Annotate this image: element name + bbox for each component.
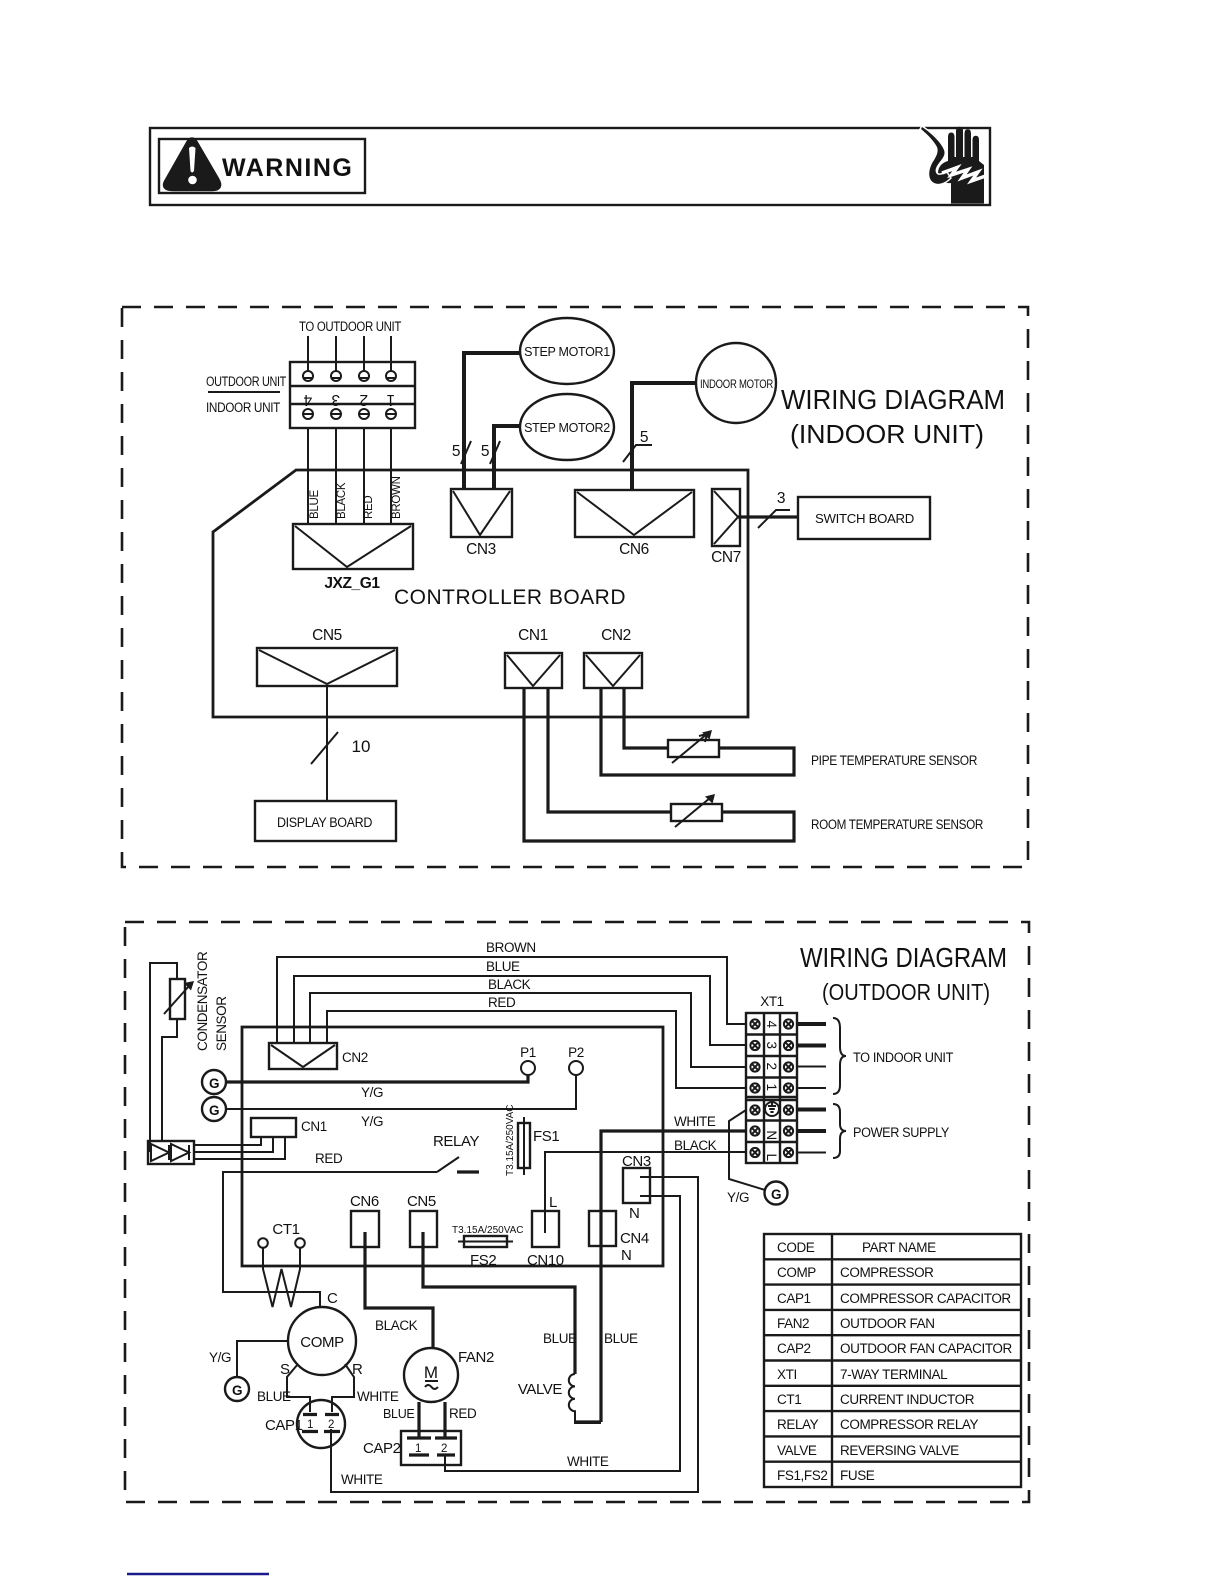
svg-text:COMPRESSOR: COMPRESSOR bbox=[840, 1265, 934, 1280]
fuse FS1 bbox=[518, 1123, 530, 1168]
svg-text:4: 4 bbox=[764, 1020, 779, 1028]
svg-text:FUSE: FUSE bbox=[840, 1468, 875, 1483]
svg-text:CN10: CN10 bbox=[527, 1252, 564, 1269]
svg-text:CN5: CN5 bbox=[312, 627, 342, 644]
svg-text:BLUE: BLUE bbox=[543, 1331, 577, 1346]
svg-text:3: 3 bbox=[332, 391, 340, 408]
svg-text:CAP2: CAP2 bbox=[777, 1341, 811, 1356]
svg-text:G: G bbox=[209, 1076, 219, 1091]
svg-text:JXZ_G1: JXZ_G1 bbox=[324, 575, 380, 592]
wire BROWN : CN2 to XT1-4 bbox=[277, 957, 746, 1043]
svg-text:XTI: XTI bbox=[777, 1367, 797, 1382]
3-wire marker bbox=[758, 510, 790, 528]
svg-text:CN6: CN6 bbox=[619, 541, 649, 558]
svg-text:REVERSING VALVE: REVERSING VALVE bbox=[840, 1443, 959, 1458]
svg-text:COMPRESSOR CAPACITOR: COMPRESSOR CAPACITOR bbox=[840, 1291, 1011, 1306]
svg-text:RED: RED bbox=[449, 1406, 477, 1421]
brace TO INDOOR UNIT bbox=[833, 1018, 846, 1094]
svg-text:RELAY: RELAY bbox=[433, 1133, 479, 1150]
connector CN3 bbox=[451, 489, 512, 537]
svg-text:3: 3 bbox=[777, 490, 785, 507]
svg-text:PIPE TEMPERATURE SENSOR: PIPE TEMPERATURE SENSOR bbox=[811, 753, 978, 768]
svg-text:CN3: CN3 bbox=[466, 541, 496, 558]
svg-text:T3.15A/250VAC: T3.15A/250VAC bbox=[452, 1225, 524, 1236]
svg-text:CN4: CN4 bbox=[620, 1230, 649, 1247]
connector CN7 bbox=[712, 489, 740, 546]
svg-text:TO OUTDOOR UNIT: TO OUTDOOR UNIT bbox=[299, 319, 401, 334]
wire indoor motor to CN6 bbox=[632, 383, 697, 490]
room temperature sensor loop bbox=[524, 688, 794, 841]
svg-text:FS1,FS2: FS1,FS2 bbox=[777, 1468, 827, 1483]
wire BLACK : XT1-L to CN10 bbox=[545, 1152, 746, 1211]
svg-text:COMP: COMP bbox=[300, 1334, 344, 1351]
wire CN7 to switch board bbox=[738, 515, 798, 518]
svg-text:1: 1 bbox=[764, 1083, 779, 1090]
wire CN3 to white wire right bbox=[331, 1177, 698, 1492]
svg-text:FAN2: FAN2 bbox=[777, 1316, 809, 1331]
svg-text:5: 5 bbox=[481, 443, 489, 460]
svg-text:BLUE: BLUE bbox=[383, 1407, 414, 1421]
svg-text:ROOM TEMPERATURE SENSOR: ROOM TEMPERATURE SENSOR bbox=[811, 817, 984, 832]
svg-text:CT1: CT1 bbox=[777, 1392, 801, 1407]
svg-text:RELAY: RELAY bbox=[777, 1417, 819, 1432]
svg-text:CURRENT INDUCTOR: CURRENT INDUCTOR bbox=[840, 1392, 975, 1407]
svg-text:WHITE: WHITE bbox=[357, 1389, 399, 1404]
svg-text:BLUE: BLUE bbox=[257, 1389, 291, 1404]
ground G2 bbox=[202, 1097, 226, 1121]
svg-text:CAP2: CAP2 bbox=[363, 1440, 401, 1457]
condensator sensor resistor bbox=[170, 979, 185, 1019]
svg-text:XT1: XT1 bbox=[760, 994, 784, 1009]
svg-text:BLACK: BLACK bbox=[336, 482, 348, 519]
svg-text:CAP1: CAP1 bbox=[777, 1291, 811, 1306]
svg-text:G: G bbox=[232, 1383, 242, 1398]
svg-text:1: 1 bbox=[415, 1443, 421, 1455]
svg-text:FS2: FS2 bbox=[470, 1252, 496, 1269]
terminal numbers 4 3 2 1 (upside down) bbox=[303, 391, 395, 408]
svg-text:BROWN: BROWN bbox=[391, 476, 403, 519]
svg-text:L: L bbox=[549, 1194, 557, 1211]
svg-text:CONTROLLER BOARD: CONTROLLER BOARD bbox=[394, 586, 626, 609]
indoor dashed border bbox=[122, 307, 1028, 867]
warning inner box bbox=[159, 139, 365, 193]
svg-text:VALVE: VALVE bbox=[777, 1443, 817, 1458]
svg-text:WIRING DIAGRAM: WIRING DIAGRAM bbox=[781, 384, 1005, 415]
svg-text:CN2: CN2 bbox=[342, 1050, 368, 1065]
svg-text:VALVE: VALVE bbox=[518, 1381, 563, 1398]
node P2 bbox=[569, 1061, 583, 1075]
svg-text:(OUTDOOR UNIT): (OUTDOOR UNIT) bbox=[822, 979, 990, 1005]
indoor motor bbox=[696, 343, 776, 423]
svg-text:RED: RED bbox=[363, 496, 375, 519]
wire CN5 to display board bbox=[326, 686, 328, 801]
fan motor FAN2 bbox=[404, 1348, 458, 1402]
svg-text:P2: P2 bbox=[568, 1045, 584, 1060]
svg-text:4: 4 bbox=[303, 391, 312, 408]
brace POWER SUPPLY bbox=[833, 1104, 846, 1158]
svg-text:CODE: CODE bbox=[777, 1240, 815, 1255]
connector CN4 bbox=[589, 1211, 616, 1246]
outdoor dashed border bbox=[125, 922, 1029, 1502]
svg-text:N: N bbox=[621, 1247, 631, 1264]
controller board outline bbox=[213, 470, 748, 717]
svg-text:INDOOR UNIT: INDOOR UNIT bbox=[206, 400, 280, 415]
outdoor PCB outline bbox=[242, 1027, 663, 1266]
step motor 1 bbox=[520, 318, 614, 384]
svg-text:T3.15A/250VAC: T3.15A/250VAC bbox=[505, 1104, 516, 1176]
display board bbox=[255, 801, 396, 841]
svg-text:2: 2 bbox=[328, 1419, 334, 1431]
svg-text:WHITE: WHITE bbox=[674, 1114, 716, 1129]
svg-text:WARNING: WARNING bbox=[222, 154, 353, 182]
svg-text:SWITCH BOARD: SWITCH BOARD bbox=[815, 512, 914, 526]
svg-text:FS1: FS1 bbox=[533, 1128, 559, 1145]
connector CN1 bbox=[251, 1118, 296, 1137]
svg-text:M: M bbox=[424, 1363, 438, 1382]
pipe sensor resistor bbox=[668, 740, 719, 757]
svg-text:2: 2 bbox=[441, 1443, 447, 1455]
room sensor resistor bbox=[671, 804, 722, 821]
svg-text:WIRING DIAGRAM: WIRING DIAGRAM bbox=[800, 942, 1007, 973]
footer rule bbox=[127, 1573, 269, 1576]
wire WHITE : XT1-N to CN4 and valve bbox=[575, 1131, 746, 1422]
terminal screws bottom row bbox=[303, 409, 396, 419]
svg-text:Y/G: Y/G bbox=[361, 1085, 383, 1100]
wires sensor plug to CN1 bbox=[194, 1137, 285, 1159]
svg-text:PART NAME: PART NAME bbox=[862, 1240, 936, 1255]
wire CN6 to FAN2 bbox=[365, 1232, 433, 1348]
svg-text:BLACK: BLACK bbox=[674, 1138, 717, 1153]
condensator sensor wires bbox=[150, 963, 177, 1152]
5-wire marker bbox=[490, 441, 500, 464]
svg-text:CN2: CN2 bbox=[601, 627, 631, 644]
wire COMP to ground bbox=[237, 1341, 288, 1377]
svg-text:RED: RED bbox=[315, 1151, 343, 1166]
svg-text:C: C bbox=[327, 1290, 338, 1307]
wire BLACK : CN2 to XT1-2 bbox=[310, 993, 746, 1067]
pipe temperature sensor loop bbox=[601, 688, 794, 775]
svg-text:BLACK: BLACK bbox=[488, 977, 531, 992]
svg-text:BLUE: BLUE bbox=[486, 959, 520, 974]
svg-text:5: 5 bbox=[452, 443, 460, 460]
svg-text:G: G bbox=[771, 1187, 781, 1202]
warning banner outer box bbox=[150, 128, 990, 205]
svg-text:WHITE: WHITE bbox=[567, 1454, 609, 1469]
electric shock hand icon bbox=[921, 127, 987, 204]
10-wire marker bbox=[311, 732, 338, 764]
wire CN5 to valve bbox=[423, 1232, 575, 1374]
XT1 right side pigtails bbox=[797, 1024, 826, 1131]
svg-text:10: 10 bbox=[352, 737, 371, 756]
svg-text:FAN2: FAN2 bbox=[458, 1349, 494, 1366]
wire BLUE : CN2 to XT1-3 bbox=[294, 976, 746, 1045]
svg-text:G: G bbox=[209, 1103, 219, 1118]
svg-text:STEP MOTOR1: STEP MOTOR1 bbox=[524, 345, 610, 359]
terminal screws top row bbox=[303, 371, 396, 381]
switch board bbox=[798, 497, 930, 539]
wire CN3 to step motor 1 bbox=[464, 353, 520, 490]
svg-text:CN5: CN5 bbox=[407, 1193, 436, 1210]
svg-text:OUTDOOR FAN CAPACITOR: OUTDOOR FAN CAPACITOR bbox=[840, 1341, 1013, 1356]
wires to outdoor unit bbox=[308, 336, 391, 372]
svg-text:2: 2 bbox=[764, 1062, 779, 1069]
ground G1 bbox=[202, 1070, 226, 1094]
connector CN2 bbox=[269, 1043, 337, 1069]
svg-text:2: 2 bbox=[360, 391, 368, 408]
valve coil bbox=[569, 1374, 601, 1423]
svg-text:CN1: CN1 bbox=[518, 627, 548, 644]
wire RED to relay and compressor bbox=[223, 1172, 437, 1308]
svg-text:5: 5 bbox=[640, 429, 648, 446]
svg-text:BLUE: BLUE bbox=[309, 490, 321, 519]
wires terminal block to JXZ_G1 bbox=[308, 428, 391, 524]
connector CN6 bbox=[575, 490, 694, 537]
XT1 earth terminal bbox=[765, 1102, 779, 1116]
parts table bbox=[764, 1234, 1021, 1487]
svg-text:CN6: CN6 bbox=[350, 1193, 379, 1210]
XT1 terminal screws bbox=[750, 1019, 793, 1157]
svg-text:Y/G: Y/G bbox=[209, 1350, 231, 1365]
svg-text:BLUE: BLUE bbox=[604, 1331, 638, 1346]
5-wire marker bbox=[623, 445, 652, 462]
svg-text:RED: RED bbox=[488, 995, 516, 1010]
svg-text:P1: P1 bbox=[520, 1045, 536, 1060]
svg-text:INDOOR MOTOR: INDOOR MOTOR bbox=[700, 379, 773, 391]
svg-text:OUTDOOR UNIT: OUTDOOR UNIT bbox=[206, 374, 286, 389]
warning triangle icon bbox=[165, 140, 219, 190]
svg-text:CONDENSATOR: CONDENSATOR bbox=[195, 951, 210, 1051]
connector JXZ_G1 bbox=[293, 524, 413, 569]
terminal block XT (indoor) bbox=[290, 362, 415, 428]
wire RED : CN2 to XT1-1 bbox=[327, 1011, 746, 1088]
connector (sensor plug) bbox=[148, 1141, 194, 1164]
node P1 bbox=[521, 1061, 535, 1075]
svg-text:STEP MOTOR2: STEP MOTOR2 bbox=[524, 421, 610, 435]
XT1 labels 4 3 2 1 gnd N L bbox=[764, 1020, 779, 1161]
svg-text:CN7: CN7 bbox=[711, 549, 741, 566]
wires FAN2 to CAP2 bbox=[419, 1402, 445, 1438]
svg-text:Y/G: Y/G bbox=[361, 1114, 383, 1129]
svg-text:WHITE: WHITE bbox=[341, 1472, 383, 1487]
svg-text:(INDOOR UNIT): (INDOOR UNIT) bbox=[790, 419, 984, 449]
ground G4 bbox=[765, 1182, 788, 1205]
wire XT1 earth to ground bbox=[729, 1110, 765, 1190]
svg-text:CN1: CN1 bbox=[301, 1119, 327, 1134]
5-wire marker bbox=[461, 441, 471, 464]
svg-text:TO INDOOR UNIT: TO INDOOR UNIT bbox=[853, 1050, 953, 1065]
svg-text:SENSOR: SENSOR bbox=[214, 996, 229, 1051]
svg-text:BLACK: BLACK bbox=[375, 1318, 418, 1333]
svg-text:7-WAY TERMINAL: 7-WAY TERMINAL bbox=[840, 1367, 948, 1382]
svg-text:BROWN: BROWN bbox=[486, 940, 536, 955]
svg-text:CT1: CT1 bbox=[272, 1221, 299, 1238]
wire Y/G to P2 bbox=[226, 1075, 576, 1109]
svg-text:1: 1 bbox=[307, 1419, 313, 1431]
svg-text:DISPLAY BOARD: DISPLAY BOARD bbox=[277, 815, 373, 830]
svg-text:1: 1 bbox=[387, 391, 395, 408]
ground G3 bbox=[225, 1377, 249, 1401]
svg-text:OUTDOOR FAN: OUTDOOR FAN bbox=[840, 1316, 935, 1331]
relay contact bbox=[437, 1157, 459, 1172]
step motor 2 bbox=[520, 394, 614, 460]
svg-text:L: L bbox=[764, 1153, 779, 1161]
svg-text:N: N bbox=[629, 1205, 639, 1222]
svg-text:3: 3 bbox=[764, 1041, 779, 1048]
svg-text:COMPRESSOR RELAY: COMPRESSOR RELAY bbox=[840, 1417, 979, 1432]
svg-text:COMP: COMP bbox=[777, 1265, 816, 1280]
svg-text:Y/G: Y/G bbox=[727, 1190, 749, 1205]
svg-text:N: N bbox=[764, 1130, 779, 1139]
wire Y/G to P1 bbox=[226, 1075, 528, 1082]
compressor COMP bbox=[288, 1307, 356, 1375]
wire CN3 to step motor 2 bbox=[494, 426, 520, 490]
svg-text:POWER SUPPLY: POWER SUPPLY bbox=[853, 1125, 949, 1140]
